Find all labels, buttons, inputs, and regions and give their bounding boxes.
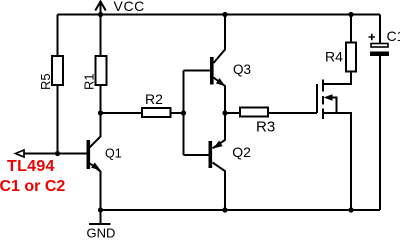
svg-text:R4: R4 bbox=[325, 49, 343, 65]
svg-text:TL494: TL494 bbox=[7, 158, 55, 175]
svg-text:C1 or C2: C1 or C2 bbox=[0, 178, 65, 195]
svg-text:VCC: VCC bbox=[114, 0, 145, 14]
svg-text:Q3: Q3 bbox=[233, 62, 251, 77]
svg-text:Q1: Q1 bbox=[105, 147, 122, 161]
svg-text:R2: R2 bbox=[145, 91, 163, 107]
svg-text:Q2: Q2 bbox=[232, 144, 251, 160]
svg-text:R5: R5 bbox=[38, 73, 53, 90]
svg-text:R3: R3 bbox=[256, 119, 275, 136]
svg-text:GND: GND bbox=[87, 226, 116, 239]
svg-text:R1: R1 bbox=[82, 73, 97, 90]
svg-text:C1: C1 bbox=[387, 28, 400, 44]
